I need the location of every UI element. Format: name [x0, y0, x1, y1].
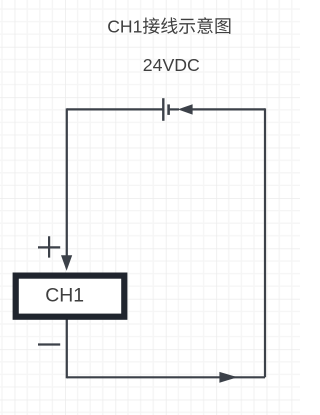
- title glyph 示: [179, 19, 195, 34]
- wire left vertical down to CH1 arrow: [66, 108, 68, 256]
- wire top-right horizontal (right corner to arrow back): [192, 108, 265, 110]
- wire bottom horizontal: [67, 376, 265, 378]
- wire from CH1 bottom to bottom-left corner: [66, 318, 68, 378]
- arrowhead into battery (pointing left): [178, 104, 193, 114]
- battery (24VDC source) negative short plate: [167, 104, 170, 115]
- svg-text:CH1: CH1: [107, 17, 142, 37]
- title glyph 意: [197, 17, 213, 33]
- title glyph 接: [143, 17, 160, 33]
- svg-text:24VDC: 24VDC: [143, 55, 200, 75]
- battery (24VDC source) positive long plate: [162, 98, 164, 121]
- title glyph 线: [161, 17, 177, 33]
- wire right vertical: [264, 108, 266, 377]
- battery stub wire (short plate to arrow tip): [169, 108, 179, 110]
- wire top-left horizontal (battery + to left corner): [67, 108, 163, 110]
- title glyph 图: [216, 18, 231, 34]
- CH1 device box: [16, 276, 125, 317]
- plus sign (+ terminal): [38, 236, 60, 257]
- arrowhead on bottom wire (pointing right): [219, 372, 237, 383]
- minus sign (- terminal): [38, 343, 60, 345]
- svg-text:CH1: CH1: [45, 285, 84, 307]
- arrowhead into CH1 (pointing down): [61, 255, 72, 270]
